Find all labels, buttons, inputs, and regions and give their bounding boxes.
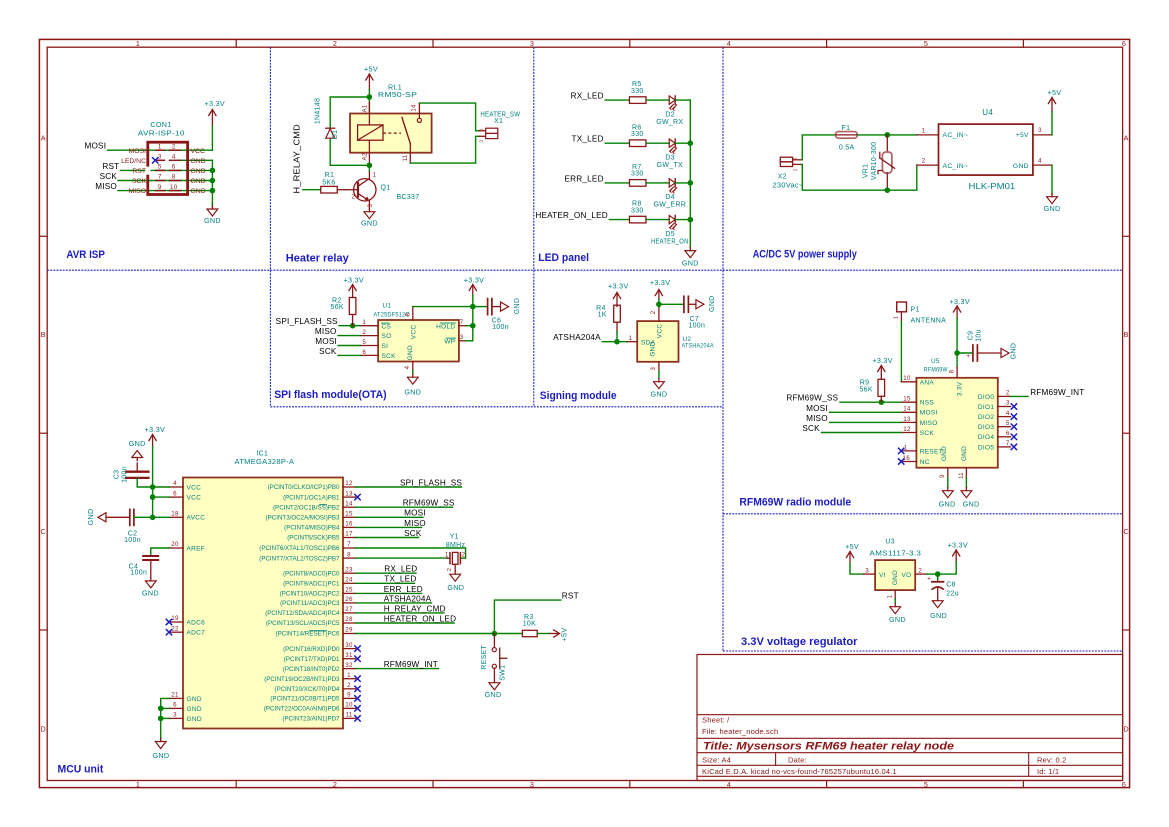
svg-text:MISO: MISO [129,188,146,195]
U5 DIO pins [978,390,1017,452]
U3 pin2 VO [902,567,927,579]
wire relay pin14 to connector X1 pin1 [419,103,479,131]
svg-text:8: 8 [405,312,411,316]
svg-text:X2: X2 [778,173,787,180]
wire R6 to D3 [647,142,669,144]
svg-text:10: 10 [170,184,178,191]
junction at CON1 pin8 [210,178,216,184]
svg-text:+3.3V: +3.3V [145,425,165,434]
svg-text:(PCINT5/SCK)PB5: (PCINT5/SCK)PB5 [287,535,340,542]
resistor R1 [321,186,338,193]
connector X1 HEATER_SW [479,128,498,143]
svg-text:(PCINT16/RXD)PD0: (PCINT16/RXD)PD0 [283,646,340,653]
svg-text:MISO: MISO [95,182,117,191]
svg-text:D: D [41,724,47,733]
svg-text:3: 3 [158,154,162,161]
svg-text:A: A [1124,134,1129,143]
wire IC1 to SPI_FLASH_SS [356,486,462,488]
svg-text:9: 9 [347,692,351,699]
svg-text:32: 32 [345,662,353,669]
svg-text:3: 3 [530,780,534,789]
capacitor C8 22u polarized [927,574,944,597]
svg-text:ANA: ANA [920,379,935,386]
ground GND right of C6 [501,298,521,314]
svg-text:HLK-PM01: HLK-PM01 [969,181,1016,191]
svg-text:GND: GND [892,570,899,585]
svg-text:SW1: SW1 [500,665,507,681]
svg-text:SPI_FLASH_SS: SPI_FLASH_SS [276,317,338,326]
U3 pin1 GND [887,590,895,599]
U4 pin2 AC_IN [917,158,968,170]
svg-text:VCC: VCC [187,484,202,491]
svg-text:1: 1 [894,316,900,319]
svg-text:LED/NC: LED/NC [121,158,146,165]
svg-text:3.3V: 3.3V [957,381,964,396]
wire D3 to GND bus [675,142,690,144]
resistor R8 330 [629,216,646,223]
switch SW1 RESET [492,634,507,683]
junction HOLD row [470,323,476,329]
svg-text:25: 25 [345,587,353,594]
CON1 left pin names [121,148,146,195]
svg-text:GND: GND [404,387,421,396]
svg-text:16: 16 [345,521,353,528]
wire MOSI to U1 SI [338,345,360,347]
svg-text:GND: GND [941,446,948,461]
svg-text:C3: C3 [113,470,120,480]
U1 left pins CS SO SI SCK [360,319,396,360]
svg-text:MCU unit: MCU unit [58,764,104,776]
svg-text:C9: C9 [967,331,974,341]
svg-text:ANTENNA: ANTENNA [911,317,947,324]
svg-text:RFM69W: RFM69W [924,367,948,374]
wire IC1 to ERR_LED [356,592,422,594]
svg-text:6: 6 [362,349,366,356]
svg-text:RST: RST [132,168,146,175]
wire SPI_FLASH_SS to U1 CS [339,325,360,327]
junction +3.3V / C7 [656,302,662,308]
wire +3.3V down to HOLD and WP [472,307,474,341]
capacitor C6 100n [473,299,501,315]
svg-text:8: 8 [347,551,351,558]
svg-text:+5V: +5V [560,628,569,642]
wire X2 pin2 bottom rail to U4 pin2 [802,164,917,190]
svg-text:(PCINT21/OC0B/T1)PD5: (PCINT21/OC0B/T1)PD5 [270,696,340,703]
svg-text:ADC7: ADC7 [187,630,206,637]
svg-text:ATSHA204A: ATSHA204A [682,343,715,350]
wire H_RELAY_CMD to R1 [303,189,321,191]
svg-text:31: 31 [345,652,353,659]
wire R5 to D2 [647,99,669,101]
svg-text:+3.3V: +3.3V [205,99,225,108]
wire antenna to U5 ANA [900,322,902,382]
svg-text:AVR ISP: AVR ISP [66,249,105,261]
svg-text:D3: D3 [665,155,675,162]
svg-text:3: 3 [173,712,177,719]
svg-text:AC/DC 5V power supply: AC/DC 5V power supply [753,249,858,261]
power +3.3V above R9 [872,356,892,379]
wire RST node to R3 [494,633,522,635]
svg-text:2: 2 [922,158,926,165]
resistor R7 330 [629,180,646,187]
svg-text:C: C [1123,527,1129,536]
frame row letters A-D left [41,134,47,734]
svg-text:6: 6 [1122,780,1126,789]
svg-text:4: 4 [1038,158,1042,165]
svg-text:30: 30 [345,642,353,649]
svg-text:2: 2 [651,310,657,314]
wire HEATER_ON_LED to R8 [609,219,628,221]
svg-text:12: 12 [345,480,353,487]
svg-text:SCK: SCK [382,353,397,360]
svg-text:AT25DF512C: AT25DF512C [374,311,410,318]
ic IC1 ATMEGA328P-A body [183,478,343,729]
U2 VCC pin2 [651,307,659,321]
svg-text:RFM69W_INT: RFM69W_INT [384,660,438,669]
svg-text:(PCINT12/SDA/ADC4)PC4: (PCINT12/SDA/ADC4)PC4 [265,610,340,617]
svg-text:(PCINT22/OC0A/AIN0)PD6: (PCINT22/OC0A/AIN0)PD6 [264,706,340,713]
svg-text:18: 18 [171,511,179,518]
svg-text:3: 3 [1038,127,1042,134]
svg-text:(PCINT3/OC2A/MOSI)PB3: (PCINT3/OC2A/MOSI)PB3 [266,515,340,522]
wire IC1 GND pins bus [161,698,169,738]
svg-text:GND: GND [889,615,906,624]
junction R2 bottom [350,323,356,329]
svg-text:29: 29 [345,627,353,634]
svg-text:+3.3V: +3.3V [872,356,892,365]
svg-text:RX_LED: RX_LED [384,565,417,574]
svg-text:4: 4 [172,154,176,161]
junction GND pin5 [158,706,164,712]
svg-text:(PCINT18/INT0)PD2: (PCINT18/INT0)PD2 [283,666,340,673]
wire ATSHA204A to U2 SDA [602,341,627,343]
svg-text:1: 1 [347,672,351,679]
wire collector to A2 junction [368,165,370,171]
ground GND LED panel [689,247,691,250]
wire PC6 to RST node [356,633,495,635]
junction relay A2 / collector [367,163,373,169]
fuse F1 [836,132,858,139]
dotted section divider horizontal below AC/DC supply region right [723,513,1123,515]
wire R8 to D5 [647,219,669,221]
wire IC1 to MOSI [356,516,424,518]
svg-text:CS: CS [382,323,392,330]
svg-text:X1: X1 [494,118,503,125]
svg-text:5: 5 [1006,420,1010,427]
ic U3 AMS1117-3.3 body [875,560,915,590]
dotted section divider vertical x=271 [269,47,271,407]
svg-text:RFM69W_SS: RFM69W_SS [786,394,838,403]
dotted section divider vertical x=723 [722,47,724,651]
svg-text:+5V: +5V [364,65,378,74]
svg-text:GND: GND [1013,163,1029,170]
wire MISO to CON1 pin9 [118,190,212,192]
capacitor C9 10u polarized [957,345,1001,361]
junction VCC pin4 [150,484,156,490]
svg-text:A: A [41,134,46,143]
wire +3.3V to VCC pin4 [153,486,169,488]
svg-text:GND: GND [187,716,202,723]
svg-text:1K: 1K [598,312,607,319]
svg-text:GND: GND [961,446,968,461]
wire MOSI to U5 [830,411,902,413]
svg-text:MOSI: MOSI [129,148,146,155]
U2 SDA pin1 [627,335,655,346]
svg-text:2: 2 [347,682,351,689]
IC1 left pins [169,480,205,723]
svg-text:B: B [1124,330,1129,339]
svg-text:5: 5 [924,780,928,789]
svg-text:3: 3 [1006,400,1010,407]
power +3.3V above R2 [344,275,364,297]
svg-text:MOSI: MOSI [84,142,106,151]
wire D2 to GND bus [675,99,690,101]
svg-text:U4: U4 [982,108,993,117]
svg-text:10K: 10K [523,621,536,628]
svg-text:330: 330 [631,171,644,178]
svg-text:Rev: 0.2: Rev: 0.2 [1037,755,1067,764]
svg-text:15: 15 [345,511,353,518]
svg-text:Id: 1/1: Id: 1/1 [1037,767,1059,776]
svg-text:14: 14 [345,500,353,507]
U5 pin10 ANA [901,375,934,386]
svg-text:P1: P1 [911,306,920,313]
junction VCC pin6 [150,494,156,500]
led D5 [669,215,675,223]
svg-text:Signing module: Signing module [540,390,617,402]
ground GND right of C9 [1001,343,1018,359]
wire U5 DIO0 to RFM69W_INT [1011,395,1029,397]
svg-text:SO: SO [382,333,392,340]
svg-text:U5: U5 [931,358,940,365]
wire IC1 to MISO [356,526,422,528]
svg-text:ADC6: ADC6 [187,619,206,626]
svg-text:AMS1117-3.3: AMS1117-3.3 [870,551,922,558]
wire AREF to C4 [151,548,169,555]
svg-text:1: 1 [479,128,485,131]
svg-text:1: 1 [629,335,633,342]
ground GND below U1 [404,370,421,396]
junction C8 top [935,571,941,577]
svg-text:(PCINT11/ADC3)PC3: (PCINT11/ADC3)PC3 [280,600,340,607]
svg-text:100n: 100n [688,322,705,329]
svg-text:DIO1: DIO1 [978,404,994,411]
svg-text:SCK: SCK [920,430,935,437]
led D2 [669,96,675,104]
svg-text:SCK: SCK [100,172,118,181]
power +3.3V above U2 [650,278,670,307]
svg-text:(PCINT2/OC1B/SS)PB2: (PCINT2/OC1B/SS)PB2 [273,504,340,511]
svg-text:A1: A1 [363,104,369,112]
junction GND pin3 [158,716,164,722]
svg-text:SPI_FLASH_SS: SPI_FLASH_SS [400,478,462,487]
svg-text:6: 6 [1006,430,1010,437]
svg-text:3: 3 [530,39,534,48]
wire R1 to Q1 base [337,189,346,191]
svg-text:22u: 22u [946,591,959,598]
svg-text:D4: D4 [665,194,675,201]
svg-text:(PCINT19/OC2B/INT1)PD3: (PCINT19/OC2B/INT1)PD3 [264,676,340,683]
ground GND below IC1 [152,738,169,760]
svg-text:7: 7 [460,319,464,326]
wire MISO to U5 [830,421,902,423]
svg-text:H_RELAY_CMD: H_RELAY_CMD [384,604,446,613]
junction +3.3V / C9 [954,350,960,356]
svg-text:NC: NC [920,459,930,466]
wire IC1 to TX_LED [356,582,415,584]
ground GND above C3 [129,439,146,461]
svg-text:(PCINT9/ADC1)PC1: (PCINT9/ADC1)PC1 [283,581,340,588]
svg-text:15: 15 [903,396,911,403]
svg-text:1: 1 [922,127,926,134]
svg-text:C8: C8 [946,582,956,589]
svg-text:RFM69W_SS: RFM69W_SS [403,499,455,508]
svg-text:7: 7 [347,541,351,548]
svg-text:+5V: +5V [1048,88,1062,97]
svg-text:VI: VI [879,572,886,579]
wire U3 VO to +3.3V [927,560,956,574]
svg-text:Y1: Y1 [450,533,459,540]
wire X2 pin1 to fuse F1 [802,135,835,160]
svg-text:(PCINT4/MISO)PB4: (PCINT4/MISO)PB4 [284,525,340,532]
svg-text:RFM69W_INT: RFM69W_INT [1030,388,1084,397]
wire IC1 to ATSHA204A [356,602,432,604]
svg-text:MISO: MISO [920,420,938,427]
capacitor C2 100n [106,509,153,525]
wire D5 to GND bus [675,219,690,221]
no-connect X on CON1 pin3 [152,157,158,163]
svg-text:24: 24 [345,577,353,584]
svg-text:MISO: MISO [404,519,426,528]
frame column numbers 1-6 bottom [136,780,1126,789]
svg-text:GND: GND [191,178,206,185]
svg-text:8MHz: 8MHz [446,542,466,549]
U1 HOLD pin7 [436,319,473,330]
svg-text:DIO2: DIO2 [978,414,994,421]
ground GND below SW1 [485,683,502,700]
wire SCK to U5 [822,432,902,434]
svg-text:2: 2 [172,143,176,150]
svg-text:2: 2 [352,195,356,201]
no-connect X marks on IC1 unused pins [354,494,360,722]
svg-text:VAR10-300: VAR10-300 [871,142,878,180]
svg-text:VCC: VCC [411,325,418,340]
svg-text:GND: GND [485,690,502,699]
svg-text:11: 11 [403,154,409,161]
svg-text:3: 3 [368,204,374,208]
svg-text:2: 2 [793,168,799,171]
resistor R5 330 [629,97,646,104]
no-connect X on ADC6 [166,619,172,625]
svg-text:6: 6 [173,702,177,709]
svg-text:GND: GND [709,296,716,312]
svg-text:GND: GND [1044,204,1061,213]
svg-text:4: 4 [1006,410,1010,417]
svg-text:3: 3 [865,567,869,574]
svg-text:AVR-ISP-10: AVR-ISP-10 [138,128,185,137]
svg-text:GND: GND [191,188,206,195]
U3 pin3 VI [864,567,886,579]
svg-text:U1: U1 [382,303,391,310]
power +3.3V above U5 [949,297,969,367]
dotted section divider vertical x=534 [533,47,535,407]
svg-text:GW_ERR: GW_ERR [654,202,687,209]
svg-text:6: 6 [172,164,176,171]
svg-text:TX_LED: TX_LED [572,135,604,144]
junction LED bus row 3 [688,180,694,186]
svg-text:DIO3: DIO3 [978,424,994,431]
wire D1 to A2 rail [330,139,369,165]
resistor R3 [522,630,537,636]
svg-text:B: B [41,330,46,339]
svg-text:R9: R9 [860,379,870,386]
U2 GND pin3 [651,362,659,371]
U5 pin8 3.3V [950,367,964,396]
dotted section divider horizontal below RFM69W region [723,650,1123,652]
ground GND output [1044,165,1061,213]
svg-text:MISO: MISO [315,327,337,336]
svg-text:DIO0: DIO0 [978,394,994,401]
svg-text:GND: GND [682,259,699,268]
svg-text:1: 1 [136,780,140,789]
svg-text:AC_IN~: AC_IN~ [943,163,969,170]
varistor VR1 VAR10-300 [878,135,895,190]
junction R4 bottom [614,339,620,345]
svg-text:(PCINT23/AIN1)PD7: (PCINT23/AIN1)PD7 [282,716,340,723]
svg-text:NSS: NSS [920,400,935,407]
svg-text:1: 1 [158,143,162,150]
junction LED bus row 2 [688,140,694,146]
svg-text:1: 1 [793,157,799,160]
crystal Y1 8MHz [445,552,466,571]
svg-text:4: 4 [173,480,177,487]
resistor R6 330 [629,140,646,147]
svg-text:21: 21 [171,692,179,699]
svg-text:14: 14 [412,104,418,112]
svg-text:330: 330 [631,88,644,95]
svg-text:AREF: AREF [187,545,206,552]
ground GND below CON1 [204,203,221,225]
svg-text:22: 22 [171,625,179,632]
U4 pin1 AC_IN [917,127,968,139]
svg-text:100n: 100n [121,466,128,483]
power +5V input [845,542,859,563]
capacitor C3 100n [126,463,153,487]
CON1 pin segments and numbers [156,143,181,190]
svg-text:MOSI: MOSI [315,337,337,346]
svg-text:2: 2 [447,568,453,571]
svg-text:+: + [927,576,931,583]
wire IC1 XTAL1 to crystal [356,548,466,558]
svg-text:GND: GND [447,583,464,592]
svg-text:DIO4: DIO4 [978,434,994,441]
junction LED bus row 4 [688,217,694,223]
svg-text:D5: D5 [665,231,675,238]
U5 pin1 RESET no-connect [898,444,943,455]
svg-text:13: 13 [903,416,911,423]
relay RL1 coil [358,125,383,140]
svg-text:GND: GND [407,345,414,360]
svg-text:SPI flash module(OTA): SPI flash module(OTA) [274,389,387,401]
svg-text:GND: GND [1011,343,1018,359]
svg-text:GND: GND [361,219,378,228]
junction AVCC [150,515,156,521]
svg-text:(PCINT8/ADC0)PC0: (PCINT8/ADC0)PC0 [283,570,340,577]
svg-text:2: 2 [333,780,337,789]
ground GND below U5 pin9 [939,478,956,509]
svg-text:H_RELAY_CMD: H_RELAY_CMD [293,124,302,194]
junction at CON1 pin6 [210,168,216,174]
